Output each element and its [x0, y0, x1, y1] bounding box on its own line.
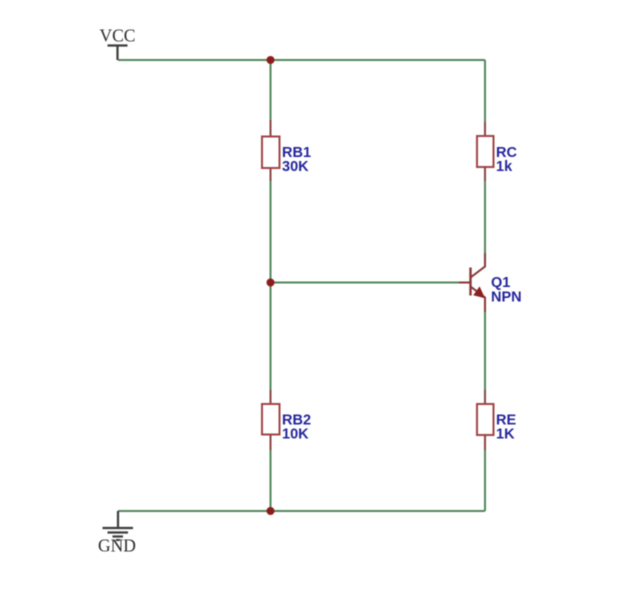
svg-text:NPN: NPN	[491, 290, 522, 306]
svg-text:Q1: Q1	[491, 275, 510, 291]
junction node: top rail / RB1	[267, 56, 275, 64]
resistor RB2	[262, 390, 280, 450]
base bar	[469, 268, 471, 296]
wire: ground bottom rail	[118, 510, 485, 512]
transistor Q1	[459, 253, 485, 312]
wire: base wire from divider node	[271, 282, 460, 284]
junction node: base / divider	[267, 279, 275, 287]
wire: right branch emitter-to-RE segment	[484, 312, 486, 390]
collector lead	[471, 253, 486, 278]
resistor RB1	[262, 120, 280, 181]
wire: left branch middle segment	[270, 181, 272, 390]
emitter arrow	[473, 286, 485, 298]
VCC power symbol	[108, 46, 128, 61]
resistor RC	[477, 122, 494, 181]
wire: right branch upper segment	[484, 60, 486, 122]
base pin	[459, 282, 471, 284]
wire: left branch upper segment	[270, 60, 272, 120]
svg-text:10K: 10K	[282, 426, 309, 442]
svg-text:1K: 1K	[496, 426, 515, 442]
emitter lead	[471, 287, 486, 313]
wire: right branch RC-to-collector segment	[484, 181, 486, 253]
svg-text:GND: GND	[98, 536, 136, 556]
svg-text:30K: 30K	[282, 159, 309, 175]
junction node: bottom rail / RB2	[267, 507, 275, 515]
wire: left branch lower segment	[270, 450, 272, 511]
svg-text:1k: 1k	[496, 159, 513, 175]
wire: right branch lower segment	[484, 450, 486, 511]
resistor RE	[477, 390, 494, 450]
ground symbol	[103, 511, 134, 540]
wire: VCC top rail	[118, 59, 485, 61]
svg-text:VCC: VCC	[100, 26, 136, 46]
